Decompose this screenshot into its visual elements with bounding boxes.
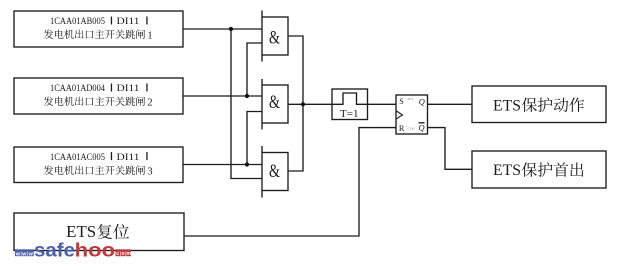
svg-text:T=1: T=1	[340, 109, 359, 120]
svg-text:hoo: hoo	[75, 239, 116, 261]
svg-text:ETS: ETS	[493, 162, 521, 179]
svg-text:Q: Q	[419, 124, 425, 133]
svg-text:&: &	[269, 91, 280, 113]
svg-text:w: w	[28, 251, 34, 257]
svg-text:1CAA01AB005: 1CAA01AB005	[50, 17, 105, 27]
svg-text:1CAA01AC005: 1CAA01AC005	[50, 153, 105, 163]
svg-text:c: c	[116, 251, 119, 257]
svg-text:3: 3	[147, 166, 152, 177]
svg-text:ETS: ETS	[493, 97, 521, 114]
svg-text:1CAA01AD004: 1CAA01AD004	[50, 84, 105, 94]
svg-text:m: m	[126, 251, 131, 257]
svg-text:ETS: ETS	[66, 222, 96, 241]
svg-text:SET: SET	[408, 97, 415, 101]
svg-text:R: R	[399, 124, 405, 133]
svg-text:Q: Q	[419, 98, 425, 107]
svg-text:w: w	[15, 251, 21, 257]
svg-text:&: &	[269, 26, 280, 48]
svg-text:S: S	[399, 97, 404, 106]
svg-text:2: 2	[147, 97, 152, 108]
svg-text:1: 1	[147, 30, 152, 41]
svg-text:w: w	[21, 251, 27, 257]
svg-text:DI11: DI11	[117, 84, 140, 94]
svg-text:DI11: DI11	[117, 17, 140, 27]
svg-text:safe: safe	[34, 239, 75, 261]
svg-text:DI11: DI11	[117, 153, 140, 163]
svg-text:CLR: CLR	[408, 127, 415, 131]
svg-text:&: &	[269, 160, 280, 182]
